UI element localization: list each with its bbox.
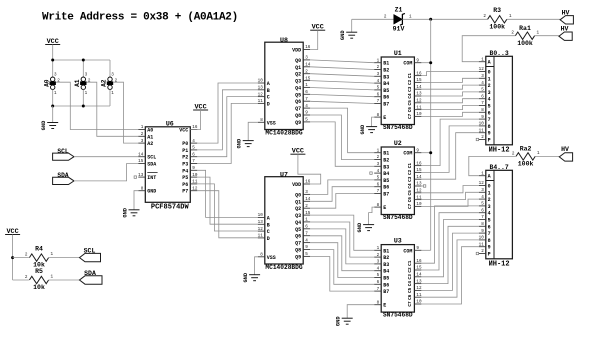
svg-text:8: 8 <box>377 203 380 208</box>
svg-text:1: 1 <box>111 91 114 96</box>
svg-text:HV: HV <box>561 146 569 153</box>
ground (U7) <box>243 272 260 282</box>
svg-text:SCL: SCL <box>147 155 156 161</box>
svg-text:GND: GND <box>237 138 243 148</box>
wire U6 P3 to U8 D <box>197 103 257 163</box>
svg-text:3: 3 <box>481 74 484 79</box>
svg-text:C6: C6 <box>408 294 413 300</box>
svg-text:P: P <box>488 138 491 144</box>
svg-text:1: 1 <box>509 14 512 19</box>
junction U1 COM <box>429 61 432 64</box>
wire A1 top stub <box>82 60 84 78</box>
svg-text:C7: C7 <box>408 203 413 209</box>
wire U6 P6 to U7 C <box>197 184 257 231</box>
svg-text:Q9: Q9 <box>295 254 301 260</box>
svg-text:91V: 91V <box>393 26 405 33</box>
svg-text:R3: R3 <box>493 7 501 14</box>
svg-text:VDD: VDD <box>292 48 301 54</box>
svg-text:HV: HV <box>562 9 570 16</box>
wire U1 C3 to B0..3 digit2 <box>421 85 478 89</box>
wire U2 C3 to B0..3 digit9 <box>421 133 478 180</box>
svg-text:10: 10 <box>416 112 422 117</box>
svg-text:100k: 100k <box>489 23 505 30</box>
ground (Z1) <box>340 30 357 40</box>
wire U3 C5 to B4..7 digit7 <box>421 233 478 290</box>
svg-text:7: 7 <box>377 189 380 194</box>
svg-text:1: 1 <box>305 218 308 223</box>
svg-text:1: 1 <box>488 76 491 82</box>
svg-text:C3: C3 <box>408 86 413 92</box>
wire U1 C7 to B0..3 digit6 <box>421 112 478 116</box>
svg-text:2: 2 <box>88 79 91 84</box>
svg-text:B7: B7 <box>383 289 389 295</box>
power flag VCC (top left) <box>45 38 60 46</box>
svg-text:4: 4 <box>481 81 484 86</box>
svg-text:15: 15 <box>416 78 422 83</box>
svg-text:A0: A0 <box>43 79 50 87</box>
svg-text:6: 6 <box>305 225 308 230</box>
svg-text:10: 10 <box>258 79 264 84</box>
svg-text:3: 3 <box>377 162 380 167</box>
svg-text:Q6: Q6 <box>295 234 301 240</box>
svg-text:COM: COM <box>403 248 412 254</box>
svg-text:4: 4 <box>192 139 195 144</box>
svg-text:P1: P1 <box>182 148 188 154</box>
zener diode Z1 91V <box>384 7 412 33</box>
wire U3 C3 to B4..7 digit5 <box>421 220 478 277</box>
net flag HV (Ra2) <box>559 146 572 161</box>
svg-text:1: 1 <box>488 190 491 196</box>
svg-text:6: 6 <box>481 94 484 99</box>
wire A0 top stub <box>52 60 54 78</box>
svg-text:2: 2 <box>25 275 28 280</box>
wire U8 Q7 to U2 B1 <box>310 108 374 153</box>
svg-text:Q2: Q2 <box>295 72 301 78</box>
wire U8 Q0 to U1 B1 <box>310 60 374 63</box>
connector B4..7 IN-12 nixie <box>479 164 513 269</box>
wire U8 Q1 to U1 B2 <box>310 67 374 70</box>
wire VCC pull-up rail <box>12 235 14 281</box>
svg-text:C2: C2 <box>408 267 413 273</box>
wire Ra1 to B0..3 pin A <box>462 36 515 62</box>
wire U7 VSS to ground <box>255 257 258 275</box>
svg-text:9: 9 <box>488 131 491 137</box>
net flag SDA (to U6) <box>53 172 74 185</box>
power flag VCC (pull-ups) <box>5 228 20 236</box>
svg-text:U6: U6 <box>166 120 174 127</box>
svg-text:P0: P0 <box>182 141 188 147</box>
wire U8 VSS to ground <box>248 122 258 140</box>
svg-text:14: 14 <box>305 63 311 68</box>
svg-text:Q2: Q2 <box>295 206 301 212</box>
resistor R3 <box>483 7 512 30</box>
svg-text:2: 2 <box>377 155 380 160</box>
wire U7 Q8 to U3 B6 <box>310 250 374 285</box>
wire COM bus vertical <box>430 19 432 250</box>
IC U1 SN75468D <box>374 50 422 131</box>
svg-text:Q7: Q7 <box>295 106 301 112</box>
resistor R4 10k <box>25 246 54 269</box>
svg-text:A: A <box>488 174 491 180</box>
wire U8 Q3 to U1 B4 <box>310 81 374 84</box>
svg-text:В0..3: В0..3 <box>490 50 509 57</box>
svg-text:1: 1 <box>85 91 88 96</box>
svg-text:12: 12 <box>258 92 264 97</box>
svg-text:Q7: Q7 <box>295 241 301 247</box>
svg-text:10: 10 <box>192 173 198 178</box>
wire U7 Q0 to U2 B5 <box>310 180 374 195</box>
svg-text:B4: B4 <box>383 81 389 87</box>
svg-text:C7: C7 <box>408 301 413 307</box>
svg-text:5: 5 <box>488 104 491 110</box>
svg-text:SDA: SDA <box>147 162 156 168</box>
wire U6 P0 to U8 A <box>197 83 257 143</box>
ground (U6) <box>122 207 139 217</box>
svg-text:11: 11 <box>192 180 198 185</box>
svg-text:P6: P6 <box>182 182 188 188</box>
wire U7 Q4 to U3 B2 <box>310 222 374 257</box>
svg-text:10: 10 <box>258 213 264 218</box>
wire VCC to U6 pin16 <box>190 110 200 130</box>
svg-text:2: 2 <box>305 69 308 74</box>
svg-text:P7: P7 <box>182 189 188 195</box>
svg-text:6: 6 <box>377 92 380 97</box>
svg-text:7: 7 <box>305 231 308 236</box>
svg-text:Q5: Q5 <box>295 227 301 233</box>
svg-text:SDA: SDA <box>84 270 96 277</box>
svg-text:4: 4 <box>488 97 491 103</box>
svg-text:15: 15 <box>416 266 422 271</box>
svg-text:14: 14 <box>416 175 422 180</box>
wire U1 C5 to B0..3 digit4 <box>421 99 478 103</box>
wire U7 Q5 to U3 B3 <box>310 229 374 264</box>
svg-text:A2: A2 <box>147 141 153 147</box>
svg-text:15: 15 <box>305 76 311 81</box>
svg-text:11: 11 <box>258 99 264 104</box>
svg-text:SCL: SCL <box>57 148 68 155</box>
svg-text:C5: C5 <box>408 100 413 106</box>
wire Z1 ground stub <box>351 19 353 32</box>
wire U8 Q9 to U2 B3 <box>310 122 374 166</box>
svg-text:MC14028BDG: MC14028BDG <box>265 264 302 271</box>
svg-text:11: 11 <box>479 242 485 247</box>
wire Ra2 to B4..7 pin A <box>469 156 516 175</box>
wire U8 Q8 to U2 B2 <box>310 115 374 160</box>
svg-text:VCC: VCC <box>179 128 188 134</box>
svg-text:P4: P4 <box>182 168 188 174</box>
svg-text:10k: 10k <box>33 284 45 291</box>
svg-text:13: 13 <box>416 182 422 187</box>
svg-text:GND: GND <box>122 207 128 217</box>
svg-text:SDA: SDA <box>57 172 68 179</box>
wire bottom rail to ground <box>52 106 54 123</box>
svg-text:1: 1 <box>481 171 484 176</box>
svg-text:A1: A1 <box>147 134 153 140</box>
junction top rail at A0 <box>51 59 54 62</box>
svg-text:VSS: VSS <box>267 255 276 261</box>
wire rail to R5 <box>13 279 29 281</box>
ground (jumper block) <box>41 120 58 130</box>
svg-text:5: 5 <box>488 218 491 224</box>
wire R3 to HV flag <box>507 18 560 20</box>
svg-text:8: 8 <box>377 300 380 305</box>
svg-text:U3: U3 <box>394 238 402 245</box>
svg-text:PCF8574DW: PCF8574DW <box>151 204 190 212</box>
power flag VCC (above U6) <box>193 104 208 112</box>
IC U8 MC14028BDG <box>258 37 311 137</box>
svg-text:Q8: Q8 <box>295 248 301 254</box>
svg-text:16: 16 <box>416 161 422 166</box>
svg-text:GND: GND <box>41 120 47 130</box>
svg-text:Q1: Q1 <box>295 199 301 205</box>
svg-text:4: 4 <box>377 79 380 84</box>
svg-text:12: 12 <box>416 99 422 104</box>
svg-text:3: 3 <box>488 204 491 210</box>
wire SCL flag to U6 pin14 <box>74 156 138 158</box>
svg-text:B2: B2 <box>383 158 389 164</box>
svg-text:7: 7 <box>305 97 308 102</box>
no-connect U2 B4 pin 4 <box>370 172 372 174</box>
svg-text:C3: C3 <box>408 176 413 182</box>
svg-text:INT: INT <box>147 175 156 181</box>
svg-text:13: 13 <box>138 173 144 178</box>
svg-text:15: 15 <box>305 211 311 216</box>
svg-text:7: 7 <box>481 101 484 106</box>
wire U6 P7 to U7 D <box>197 191 257 238</box>
svg-text:7: 7 <box>377 99 380 104</box>
svg-text:Q9: Q9 <box>295 120 301 126</box>
svg-text:Q6: Q6 <box>295 99 301 105</box>
svg-text:2: 2 <box>384 14 387 19</box>
svg-text:3: 3 <box>305 190 308 195</box>
jumper A1 <box>74 73 91 96</box>
svg-text:B5: B5 <box>383 178 389 184</box>
svg-text:SN75468D: SN75468D <box>383 214 413 221</box>
wire A2 bottom stub <box>109 89 111 106</box>
svg-text:A2: A2 <box>101 79 108 87</box>
svg-text:3: 3 <box>377 72 380 77</box>
svg-text:B6: B6 <box>383 282 389 288</box>
svg-text:3: 3 <box>488 90 491 96</box>
svg-text:9: 9 <box>305 111 308 116</box>
svg-text:7: 7 <box>377 287 380 292</box>
wire U6 P4 to U7 A <box>197 170 257 217</box>
svg-text:P2: P2 <box>182 155 188 161</box>
IC U2 SN75468D <box>374 140 422 221</box>
svg-text:5: 5 <box>481 202 484 207</box>
svg-text:B3: B3 <box>383 164 389 170</box>
svg-text:2: 2 <box>377 65 380 70</box>
IC U3 SN75468D <box>374 238 422 319</box>
svg-text:3: 3 <box>111 73 114 78</box>
wire U2 COM stub <box>421 152 430 154</box>
svg-text:GND: GND <box>243 272 249 282</box>
svg-text:E: E <box>383 303 386 309</box>
svg-text:12: 12 <box>479 181 485 186</box>
no-connect U6 INT pin 13 <box>134 176 136 178</box>
svg-text:0: 0 <box>488 184 491 190</box>
svg-text:3: 3 <box>85 73 88 78</box>
wire U3 C2 to B4..7 digit4 <box>421 213 478 270</box>
svg-text:6: 6 <box>377 280 380 285</box>
wire rail to R4 <box>13 257 29 259</box>
IC U7 MC14028BDG <box>258 172 311 272</box>
svg-text:6: 6 <box>488 110 491 116</box>
svg-text:B2: B2 <box>383 255 389 261</box>
svg-text:2: 2 <box>483 14 486 19</box>
wire A1 bottom stub <box>82 89 84 106</box>
svg-text:1: 1 <box>377 246 380 251</box>
wire A1 pin2 to U6 A1 <box>87 82 139 136</box>
wire jumper bottom rail <box>53 105 110 107</box>
connector B0..3 IN-12 nixie <box>479 50 513 155</box>
wire U6 GND to ground <box>134 191 138 210</box>
wire A2 top stub <box>109 60 111 78</box>
net flag HV (R3) <box>560 9 573 24</box>
ground (U2) <box>357 222 374 232</box>
svg-text:8: 8 <box>377 113 380 118</box>
junction bottom rail at A0 <box>51 105 54 108</box>
svg-text:C5: C5 <box>408 287 413 293</box>
svg-text:D: D <box>267 236 270 242</box>
svg-text:1: 1 <box>54 91 57 96</box>
power flag VCC (above U7) <box>290 148 305 156</box>
svg-text:13: 13 <box>416 92 422 97</box>
wire U2 C6 to B4..7 digit1 <box>421 192 478 199</box>
wire U1 C6 to B0..3 digit5 <box>421 106 478 110</box>
svg-text:SN75468D: SN75468D <box>383 312 413 319</box>
svg-text:Q0: Q0 <box>295 58 301 64</box>
svg-text:C: C <box>267 95 270 101</box>
svg-text:8: 8 <box>488 124 491 130</box>
svg-text:9: 9 <box>488 245 491 251</box>
svg-text:A: A <box>488 60 491 66</box>
wire VCC to jumper rail <box>52 45 54 61</box>
svg-text:16: 16 <box>416 71 422 76</box>
svg-text:R5: R5 <box>35 268 43 275</box>
wire U1 C1 to B0..3 digit0 <box>421 72 478 76</box>
svg-text:Q3: Q3 <box>295 79 301 85</box>
svg-text:3: 3 <box>377 260 380 265</box>
svg-text:5: 5 <box>192 146 195 151</box>
svg-text:11: 11 <box>258 234 264 239</box>
svg-text:3: 3 <box>481 188 484 193</box>
wire Ra1 to HV flag <box>535 35 559 37</box>
svg-text:14: 14 <box>138 152 144 157</box>
ground (U1) <box>360 124 377 134</box>
svg-text:4: 4 <box>377 169 380 174</box>
svg-text:8: 8 <box>141 186 144 191</box>
svg-text:8: 8 <box>481 222 484 227</box>
power flag VCC (above U8) <box>310 24 325 32</box>
wire A2 pin2 to U6 A2 <box>113 82 138 143</box>
svg-text:COM: COM <box>403 61 412 67</box>
svg-text:B1: B1 <box>383 61 389 67</box>
svg-text:5: 5 <box>377 86 380 91</box>
svg-text:Write Address = 0x38 + (A0A1A2: Write Address = 0x38 + (A0A1A2) <box>42 12 238 24</box>
svg-text:A0: A0 <box>147 128 153 134</box>
wire U2 C2 to B0..3 digit8 <box>421 126 478 172</box>
svg-text:7: 7 <box>488 231 491 237</box>
wire jumper top rail <box>53 59 110 61</box>
svg-text:10: 10 <box>479 236 485 241</box>
wire U1 C2 to B0..3 digit1 <box>421 78 478 82</box>
svg-text:11: 11 <box>416 105 422 110</box>
no-connect U2 C4 pin 13 <box>421 185 425 187</box>
svg-text:B6: B6 <box>383 95 389 101</box>
svg-text:13: 13 <box>258 220 264 225</box>
svg-text:16: 16 <box>305 180 311 185</box>
svg-text:5: 5 <box>481 88 484 93</box>
svg-text:9: 9 <box>416 246 419 251</box>
svg-text:3: 3 <box>54 73 57 78</box>
svg-text:12: 12 <box>192 186 198 191</box>
svg-text:B3: B3 <box>383 262 389 268</box>
wire U8 Q2 to U1 B3 <box>310 74 374 77</box>
resistor Ra2 <box>512 146 540 168</box>
svg-text:E: E <box>383 115 386 121</box>
svg-text:1: 1 <box>409 14 412 19</box>
svg-text:COM: COM <box>403 151 412 157</box>
svg-text:C4: C4 <box>408 281 413 287</box>
wire SDA flag to U6 pin15 <box>74 164 138 181</box>
svg-text:C4: C4 <box>408 183 413 189</box>
svg-text:1: 1 <box>141 125 144 130</box>
svg-text:P5: P5 <box>182 175 188 181</box>
svg-text:2: 2 <box>481 135 484 140</box>
svg-text:13: 13 <box>258 86 264 91</box>
svg-text:16: 16 <box>305 45 311 50</box>
svg-text:VSS: VSS <box>267 120 276 126</box>
svg-text:B2: B2 <box>383 68 389 74</box>
svg-text:Q0: Q0 <box>295 192 301 198</box>
wire VCC to U8 VDD <box>310 30 318 49</box>
svg-text:10: 10 <box>416 202 422 207</box>
svg-text:Ra1: Ra1 <box>519 25 531 32</box>
svg-text:Q4: Q4 <box>295 220 301 226</box>
svg-text:10: 10 <box>416 300 422 305</box>
svg-text:11: 11 <box>479 128 485 133</box>
title text <box>42 12 238 24</box>
svg-text:12: 12 <box>416 286 422 291</box>
svg-text:11: 11 <box>416 195 422 200</box>
svg-text:16: 16 <box>416 259 422 264</box>
svg-text:Ra2: Ra2 <box>520 146 532 153</box>
junction HV line at COM drop <box>429 18 432 21</box>
svg-text:7: 7 <box>192 159 195 164</box>
svg-text:Q5: Q5 <box>295 92 301 98</box>
svg-text:B1: B1 <box>383 248 389 254</box>
wire U7 Q2 to U2 B7 <box>310 194 374 209</box>
svg-text:2: 2 <box>305 204 308 209</box>
svg-text:ИН-12: ИН-12 <box>489 147 510 155</box>
svg-text:C2: C2 <box>408 169 413 175</box>
svg-text:C: C <box>267 229 270 235</box>
svg-text:R4: R4 <box>35 246 43 253</box>
svg-text:2: 2 <box>25 252 28 257</box>
svg-text:ИН-12: ИН-12 <box>489 261 510 269</box>
svg-text:1: 1 <box>481 57 484 62</box>
wire U2 C5 to B4..7 digit0 <box>421 186 478 193</box>
svg-text:GND: GND <box>147 189 156 195</box>
svg-text:8: 8 <box>481 108 484 113</box>
svg-text:8: 8 <box>260 118 263 123</box>
svg-text:SCL: SCL <box>84 247 96 254</box>
wire U8 Q4 to U1 B5 <box>310 88 374 90</box>
wire U2 C7 to B4..7 digit2 <box>421 199 478 206</box>
svg-text:14: 14 <box>305 197 311 202</box>
svg-text:D: D <box>267 101 270 107</box>
